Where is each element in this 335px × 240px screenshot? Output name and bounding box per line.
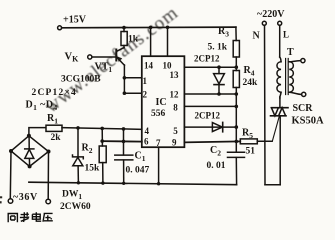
- node R2 top on pin4 wire: [100, 127, 104, 131]
- svg-text:D1 ~D4: D1 ~D4: [26, 100, 58, 113]
- node terminal 220V N: [262, 21, 266, 25]
- svg-text:KS50A: KS50A: [292, 116, 325, 127]
- capacitor C2: [228, 151, 245, 153]
- node pin8 wire junction: [235, 105, 239, 109]
- svg-text:6: 6: [144, 137, 149, 147]
- transistor Q1 emitter: [117, 57, 125, 65]
- node R4 bottom on pin12 wire: [235, 92, 239, 96]
- label sync voltage (Chinese, hand-drawn): [8, 212, 53, 222]
- wire pin4: [62, 128, 142, 130]
- wire pin10 top: [167, 27, 169, 56]
- svg-text:0. 047: 0. 047: [126, 166, 150, 176]
- node bridge right vertex: [47, 150, 51, 154]
- transistor Q1 emitter arrow: [117, 57, 122, 62]
- node bridge left vertex: [9, 149, 13, 153]
- node DW1 bottom on ground rail: [77, 181, 80, 184]
- svg-text:DW1: DW1: [62, 190, 82, 202]
- wire pin14 top: [150, 27, 152, 56]
- svg-text:T: T: [287, 47, 294, 58]
- svg-text:5. 1k: 5. 1k: [208, 43, 228, 53]
- node D5 anode on pin13 wire: [217, 65, 221, 69]
- wire N down: [264, 25, 267, 185]
- node R2 bottom on ground rail: [101, 181, 104, 184]
- svg-text:L: L: [283, 30, 289, 40]
- svg-text:556: 556: [151, 109, 166, 119]
- svg-text:~220V: ~220V: [257, 9, 285, 20]
- svg-text:9: 9: [172, 138, 177, 148]
- capacitor C1: [123, 129, 125, 155]
- wire pin6: [102, 140, 142, 143]
- svg-text:51: 51: [246, 147, 256, 157]
- node terminal 36V right: [46, 199, 51, 204]
- node 1k top on +15V rail: [122, 26, 126, 30]
- +15V terminal: [58, 26, 62, 30]
- wire R1 left + bridge top: [29, 128, 45, 136]
- svg-text:2CP12: 2CP12: [194, 54, 220, 64]
- wire pin9: [184, 141, 240, 142]
- node emitter-pin1: [123, 76, 127, 80]
- node terminal 220V L: [278, 21, 282, 25]
- diode bridge D1-D4: [11, 136, 49, 167]
- wire pin1: [124, 77, 141, 79]
- page-edge artifact marks: [0, 196, 2, 203]
- svg-text:SCR: SCR: [293, 103, 314, 114]
- wire bridge left down: [9, 151, 12, 199]
- wire rail corner down to R3: [235, 27, 237, 40]
- diode D5 2CP12 vertical: [218, 67, 220, 73]
- svg-text:~36V: ~36V: [13, 192, 38, 203]
- watermark www.elecfans.com: [41, 2, 182, 117]
- wire bottom rail: [29, 182, 237, 185]
- resistor R4 body: [233, 71, 239, 88]
- wire L down: [279, 25, 281, 57]
- wire R2 top: [101, 128, 103, 146]
- wire pin8: [184, 105, 236, 107]
- wire R5 right: [257, 140, 272, 142]
- svg-text:13: 13: [170, 70, 180, 80]
- node DW1 top on pin4 wire: [76, 126, 80, 130]
- wire 1k bottom lead: [123, 46, 125, 48]
- node terminal 36V left: [8, 199, 13, 204]
- zener DW1: [77, 128, 79, 157]
- node bridge bottom vertex: [28, 164, 32, 168]
- wire pin13: [184, 66, 236, 68]
- svg-text:5: 5: [173, 126, 178, 136]
- svg-text:2CW60: 2CW60: [60, 202, 91, 212]
- node C1 lead on pin6 wire: [122, 140, 126, 144]
- wire SCR anode lead: [279, 97, 281, 108]
- resistor R1 body: [46, 125, 62, 131]
- svg-text:3CG100B: 3CG100B: [61, 75, 101, 85]
- wire 1k top lead: [123, 28, 125, 32]
- transformer T core: [286, 59, 289, 95]
- wire base: [92, 56, 115, 58]
- node C2 top / R5 wire: [235, 140, 239, 144]
- svg-text:2CP12: 2CP12: [195, 111, 221, 121]
- node R2 on pin6 wire: [100, 139, 104, 143]
- svg-text:14: 14: [144, 60, 154, 70]
- svg-text:2CP12×4: 2CP12×4: [32, 88, 77, 98]
- svg-text:10: 10: [163, 60, 173, 70]
- svg-text:7: 7: [156, 138, 161, 148]
- node pin10 on +15V rail: [166, 26, 170, 30]
- resistor R5 body: [240, 139, 257, 144]
- SCR V1 (triac KS50A): [272, 107, 289, 109]
- wire SCR cathode: [279, 116, 281, 185]
- wire SCR gate: [272, 116, 279, 141]
- resistor R1k body: [121, 32, 127, 46]
- node R3 bottom on pin13 wire: [235, 65, 239, 69]
- wire pin5: [184, 126, 236, 128]
- node D5 cathode on pin12 wire: [217, 92, 221, 96]
- wire bottom bar N-SCR: [265, 184, 280, 186]
- wire pin2: [124, 92, 141, 94]
- svg-text:8: 8: [173, 102, 178, 112]
- resistor R3 body: [233, 41, 239, 58]
- wire R2 bottom: [102, 163, 104, 184]
- resistor R2 body: [99, 146, 106, 163]
- node emitter-pin2: [123, 91, 127, 95]
- svg-text:IC: IC: [156, 97, 167, 108]
- svg-text:1k: 1k: [128, 35, 139, 45]
- bridge inner diode: [28, 138, 30, 149]
- wire bridge right down: [47, 152, 49, 200]
- op-amp U1 IC556 box: [142, 56, 185, 147]
- transistor Q1 collector: [117, 48, 124, 52]
- svg-text:2k: 2k: [51, 133, 62, 143]
- diode D6 2CP12 horizontal: [212, 123, 222, 132]
- node pin14 on +15V rail: [149, 26, 153, 30]
- node C1 top on pin4 wire: [122, 127, 126, 131]
- transformer T secondary: [289, 62, 293, 92]
- node bridge top vertex: [27, 134, 31, 138]
- wire main vertical R3-R4: [235, 57, 237, 71]
- node C1 bottom on ground rail: [122, 182, 125, 185]
- svg-text:24k: 24k: [243, 78, 259, 88]
- svg-text:4: 4: [145, 126, 150, 136]
- svg-text:0. 01: 0. 01: [207, 161, 226, 171]
- node VK terminal: [88, 55, 92, 59]
- svg-text:2: 2: [143, 89, 148, 99]
- wire pin7 down: [158, 147, 160, 184]
- wire +15V rail: [62, 26, 236, 29]
- node pin5 diode junction: [235, 125, 239, 129]
- node pin7 on ground rail: [157, 182, 160, 185]
- svg-text:+15V: +15V: [63, 15, 87, 26]
- transformer T primary: [280, 57, 281, 62]
- svg-text:N: N: [253, 31, 261, 42]
- transistor Q1 base bar: [115, 49, 117, 62]
- svg-text:12: 12: [170, 90, 180, 100]
- wire emitter down: [123, 65, 125, 93]
- svg-text:15k: 15k: [85, 164, 101, 174]
- wire main vertical R4 down to C2: [235, 88, 237, 153]
- svg-text:1: 1: [143, 76, 148, 86]
- wire pin12: [184, 93, 236, 95]
